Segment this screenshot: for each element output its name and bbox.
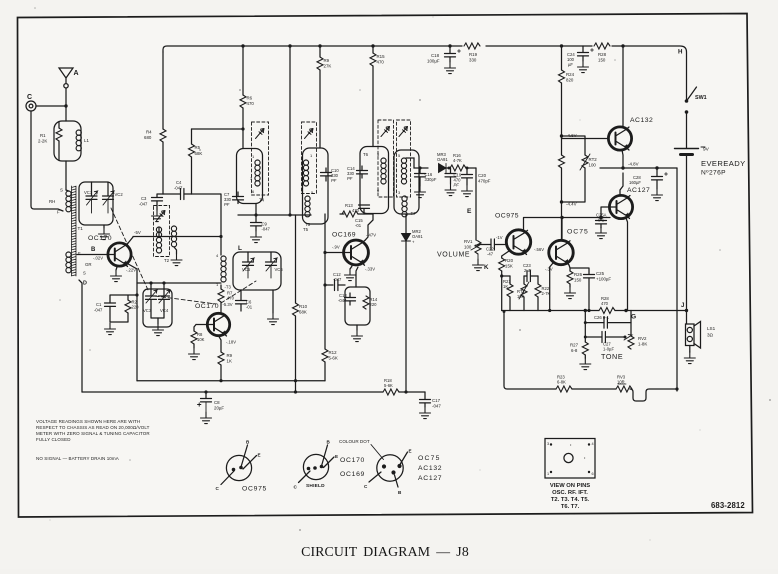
svg-text:160µF: 160µF bbox=[629, 180, 641, 185]
resistor R26 emitter bbox=[569, 265, 570, 287]
variable capacitor VC2 bbox=[107, 182, 109, 196]
svg-text:10R: 10R bbox=[617, 380, 625, 385]
capacitor C10 bbox=[325, 168, 327, 172]
wire screen feed bbox=[289, 46, 291, 215]
wire battery negative down to speaker node J bbox=[686, 155, 688, 311]
svg-text:G: G bbox=[631, 314, 636, 321]
resistor R6 bbox=[242, 46, 244, 149]
svg-text:100: 100 bbox=[464, 245, 472, 250]
svg-text:L: L bbox=[238, 245, 242, 252]
svg-text:C20: C20 bbox=[478, 173, 487, 178]
tank circuit L1/R1 outline bbox=[54, 121, 81, 161]
resistor R18 series in bus bbox=[383, 389, 399, 395]
svg-text:CIRCUIT DIAGRAM — J8: CIRCUIT DIAGRAM — J8 bbox=[301, 544, 469, 559]
svg-text:+100µF: +100µF bbox=[596, 277, 611, 282]
svg-text:-4.8V: -4.8V bbox=[628, 162, 639, 167]
svg-text:A: A bbox=[74, 70, 79, 77]
svg-text:R9: R9 bbox=[227, 353, 233, 358]
svg-text:K: K bbox=[484, 264, 489, 271]
capacitor C16 bbox=[419, 168, 421, 173]
wire T7 secondary to detector bbox=[406, 158, 428, 168]
wire R4 supply dropper bbox=[162, 52, 164, 194]
svg-text:10K: 10K bbox=[517, 294, 525, 299]
svg-text:F: F bbox=[78, 251, 81, 256]
svg-text:-.22V: -.22V bbox=[126, 268, 136, 273]
IF transformer T4 slug box bbox=[252, 122, 269, 195]
feedback loop C13/R14 bbox=[345, 287, 370, 325]
node E wire down to volume bbox=[475, 168, 477, 240]
capacitor C26 loop bbox=[585, 311, 631, 323]
svg-text:T6: T6 bbox=[363, 152, 369, 157]
svg-text:T5: T5 bbox=[305, 222, 311, 227]
svg-text:470pF: 470pF bbox=[478, 179, 491, 184]
svg-text:E: E bbox=[335, 454, 338, 459]
capacitor C28 bbox=[656, 168, 658, 176]
wire OC170 emitter branch to lower rail bbox=[127, 263, 138, 381]
svg-text:R27: R27 bbox=[570, 343, 579, 348]
transistor OC170 second bbox=[207, 313, 229, 335]
IF transformer T7 coil bbox=[394, 150, 419, 214]
inductor L1 bbox=[76, 130, 81, 151]
svg-text:OC169: OC169 bbox=[340, 471, 365, 478]
svg-text:C18: C18 bbox=[431, 53, 440, 58]
svg-text:R4: R4 bbox=[146, 130, 152, 135]
resistor R23 series bbox=[556, 386, 572, 392]
svg-text:AC132: AC132 bbox=[630, 117, 653, 124]
resistor R13 damping bbox=[340, 213, 373, 215]
svg-text:-47: -47 bbox=[487, 252, 494, 257]
tone control RV2 bbox=[628, 336, 634, 349]
svg-text:683-2812: 683-2812 bbox=[711, 501, 745, 510]
svg-text:-047: -047 bbox=[94, 308, 103, 313]
capacitor C7 bbox=[237, 192, 239, 196]
svg-text:OA91: OA91 bbox=[437, 157, 448, 162]
capacitor C25 bbox=[570, 268, 589, 274]
oscillator gang VC3/VC4 bbox=[143, 289, 172, 327]
svg-text:-.02V: -.02V bbox=[93, 256, 103, 261]
wire OC75 collector down bbox=[550, 263, 553, 311]
svg-text:T5: T5 bbox=[303, 227, 309, 232]
resistor R25 bbox=[559, 155, 565, 168]
svg-text:68K: 68K bbox=[299, 310, 307, 315]
svg-text:R24: R24 bbox=[566, 72, 575, 77]
svg-text:-01: -01 bbox=[355, 223, 362, 228]
resistor R15 470 bbox=[372, 46, 374, 147]
resistor R12 bbox=[324, 214, 326, 381]
oscillator transformer T3 bbox=[192, 194, 222, 313]
switch SW1 bbox=[687, 87, 697, 101]
svg-text:C8: C8 bbox=[214, 400, 220, 405]
svg-text:GR: GR bbox=[85, 262, 92, 267]
svg-text:220: 220 bbox=[370, 302, 378, 307]
svg-text:R20: R20 bbox=[505, 258, 514, 263]
svg-text:3Ω: 3Ω bbox=[707, 333, 714, 338]
wire OC169 collector to T7 bbox=[365, 214, 373, 240]
svg-text:E: E bbox=[258, 453, 261, 458]
svg-text:470: 470 bbox=[601, 301, 609, 306]
node -4.8V wire across bbox=[600, 167, 677, 169]
node -4.6V bbox=[560, 134, 563, 137]
main output bus G J bbox=[502, 310, 687, 312]
variable capacitor VC3 bbox=[146, 296, 157, 299]
wire AC127 base from C25A net bbox=[601, 207, 617, 218]
svg-text:SHIELD: SHIELD bbox=[306, 483, 325, 489]
wire AC132 base to -4.6V node bbox=[562, 138, 609, 140]
svg-text:C25: C25 bbox=[596, 271, 605, 276]
ground feedback loop bbox=[356, 325, 358, 330]
resistor R27 bbox=[584, 337, 586, 358]
svg-text:2µF: 2µF bbox=[524, 268, 532, 273]
svg-text:OC169: OC169 bbox=[332, 232, 356, 239]
bias ladder top wire bbox=[502, 275, 538, 277]
wire supply to OC75 base bbox=[561, 218, 563, 242]
svg-text:PF: PF bbox=[347, 176, 353, 181]
svg-text:S: S bbox=[83, 271, 86, 276]
svg-text:J: J bbox=[681, 302, 685, 309]
IF transformer T6 slug box bbox=[378, 120, 394, 197]
svg-text:T2. T3. T4. T5.: T2. T3. T4. T5. bbox=[551, 497, 590, 503]
wire AC127 emitter down to G bus bbox=[626, 218, 628, 311]
svg-text:68K: 68K bbox=[195, 151, 203, 156]
svg-text:-.56V: -.56V bbox=[534, 247, 544, 252]
wire AC127 collector from -4.8V node bbox=[620, 173, 623, 196]
wire R5 to R6 bbox=[192, 128, 244, 130]
svg-text:-4.6V: -4.6V bbox=[566, 133, 577, 138]
svg-text:-047: -047 bbox=[139, 202, 148, 207]
resistor R20 emitter of OC975 bbox=[502, 251, 509, 311]
capacitor C25A bbox=[600, 218, 602, 221]
svg-text:C1: C1 bbox=[96, 302, 102, 307]
svg-text:RV1: RV1 bbox=[464, 239, 473, 244]
svg-text:RH: RH bbox=[49, 199, 55, 204]
capacitor C23 bbox=[527, 271, 530, 282]
svg-text:PF: PF bbox=[331, 178, 337, 183]
svg-text:R10: R10 bbox=[299, 304, 308, 309]
svg-text:SW1: SW1 bbox=[695, 95, 707, 101]
capacitor C9 bbox=[255, 204, 257, 223]
svg-text:-047: -047 bbox=[338, 298, 347, 303]
ground under VC6 bbox=[272, 290, 274, 313]
resistor R28a 470 series in bus bbox=[599, 308, 615, 314]
svg-text:OC975: OC975 bbox=[242, 486, 267, 493]
svg-text:680: 680 bbox=[144, 135, 152, 140]
svg-text:VC2: VC2 bbox=[115, 192, 124, 197]
resistor R9 emitter bbox=[219, 336, 222, 381]
svg-text:1-8K: 1-8K bbox=[638, 342, 647, 347]
svg-text:4-7K: 4-7K bbox=[453, 158, 462, 163]
capacitor C22 bbox=[478, 244, 491, 246]
svg-text:B: B bbox=[91, 247, 96, 253]
svg-text:470: 470 bbox=[377, 60, 385, 65]
wire supply branch R24/R25 bbox=[561, 46, 563, 240]
svg-text:C17: C17 bbox=[432, 398, 441, 403]
wire AC132 collector to rail bbox=[622, 46, 624, 126]
capacitor C19 bbox=[450, 168, 452, 173]
transistor OC975 bbox=[506, 230, 530, 254]
svg-text:-047: -047 bbox=[432, 404, 441, 409]
svg-text:AC127: AC127 bbox=[627, 187, 650, 194]
capacitor C4 bbox=[163, 193, 192, 195]
resistor R28 series in rail bbox=[594, 43, 610, 49]
antenna A bbox=[59, 68, 73, 83]
node rail junction dots bbox=[241, 44, 624, 47]
wire T4 secondary link bbox=[238, 214, 311, 216]
svg-text:R19: R19 bbox=[469, 52, 478, 57]
IF transformer T6 coil bbox=[360, 147, 389, 214]
resistor R5 bbox=[191, 129, 193, 194]
svg-text:-01: -01 bbox=[246, 305, 253, 310]
svg-text:D: D bbox=[83, 281, 87, 287]
pin view colour dot group bbox=[377, 455, 403, 481]
variable capacitor VC4 bbox=[159, 296, 170, 299]
preset RV3 series bbox=[616, 386, 632, 392]
svg-text:RV2: RV2 bbox=[638, 336, 647, 341]
svg-text:4: 4 bbox=[592, 442, 594, 446]
winding RH bbox=[66, 191, 71, 212]
svg-text:OC170: OC170 bbox=[340, 457, 365, 464]
svg-text:AC132: AC132 bbox=[418, 465, 442, 472]
svg-text:1-0µF: 1-0µF bbox=[603, 347, 614, 352]
wire OC975 collector top bbox=[524, 218, 611, 232]
svg-text:820: 820 bbox=[566, 78, 574, 83]
oscillator coil T2 bbox=[154, 206, 170, 257]
wire C to antenna node bbox=[36, 105, 66, 107]
svg-text:VC6: VC6 bbox=[275, 267, 284, 272]
resistor R21 bbox=[509, 276, 511, 311]
resistor R14 bbox=[363, 296, 369, 309]
ganged tuning dashed line bbox=[111, 208, 256, 304]
svg-text:-.3V: -.3V bbox=[545, 267, 553, 272]
svg-text:EVEREADY: EVEREADY bbox=[701, 159, 746, 168]
svg-text:Nº276P: Nº276P bbox=[701, 170, 726, 177]
pin view OC170 OC169 shield bbox=[303, 454, 328, 479]
wire upper return bus bbox=[137, 380, 325, 382]
capacitor C14 bbox=[361, 166, 363, 170]
svg-text:OA91: OA91 bbox=[412, 234, 423, 239]
svg-text:330: 330 bbox=[469, 58, 477, 63]
svg-text:R15: R15 bbox=[377, 54, 386, 59]
winding GR on rod bbox=[66, 252, 71, 273]
IF transformer T5 slug box bbox=[302, 122, 317, 194]
oscillator tuned circuit L VC5 VC6 bbox=[233, 252, 281, 290]
resistor R10 bbox=[295, 215, 297, 392]
svg-text:5-6K: 5-6K bbox=[329, 356, 338, 361]
svg-text:S: S bbox=[60, 188, 63, 193]
resistor R16 bbox=[450, 165, 466, 171]
svg-text:F: F bbox=[57, 210, 60, 215]
svg-text:-1V: -1V bbox=[496, 235, 503, 240]
diode MR2 AGC bbox=[405, 214, 407, 233]
wire -4.8V feed down right side bbox=[676, 168, 678, 391]
ground under gang box bbox=[103, 225, 105, 228]
transformer T1 ferrite rod bbox=[72, 186, 77, 276]
svg-text:6-8K: 6-8K bbox=[557, 380, 566, 385]
svg-text:L1: L1 bbox=[84, 138, 89, 143]
transistor Q AC132 bbox=[608, 127, 631, 150]
resistor R22 bbox=[537, 276, 539, 311]
wire D down to lower bus bbox=[79, 280, 82, 392]
variable capacitor VC6 bbox=[270, 252, 272, 262]
wire AC132 emitter to -4.8V node bbox=[622, 150, 623, 168]
svg-text:µF: µF bbox=[568, 62, 573, 67]
transistor OC75 bbox=[549, 240, 573, 264]
resistor R8 base bias bbox=[194, 325, 214, 349]
svg-text:470: 470 bbox=[227, 296, 235, 301]
svg-text:R9: R9 bbox=[324, 58, 330, 63]
wire C down to coil F bbox=[31, 111, 63, 211]
svg-text:OC75: OC75 bbox=[567, 229, 589, 236]
svg-text:15K: 15K bbox=[505, 264, 513, 269]
svg-text:T1: T1 bbox=[78, 226, 84, 231]
IF transformer T7 slug box bbox=[397, 120, 411, 197]
ground OC170 emitter bbox=[116, 267, 117, 270]
svg-text:OC975: OC975 bbox=[495, 213, 519, 220]
svg-text:METER WITH ZERO SIGNAL &: METER WITH ZERO SIGNAL & TUNING CAPACITO… bbox=[36, 431, 150, 436]
svg-text:VOLUME: VOLUME bbox=[437, 252, 470, 259]
svg-text:OC170: OC170 bbox=[88, 235, 112, 242]
resistor R9a 27K bbox=[319, 46, 321, 148]
capacitor C3 bbox=[157, 194, 163, 197]
svg-text:VC4: VC4 bbox=[160, 308, 169, 313]
connector C bbox=[26, 101, 36, 111]
svg-text:E: E bbox=[467, 208, 472, 215]
svg-text:-4.4V: -4.4V bbox=[566, 202, 577, 207]
wire switch to battery bbox=[686, 112, 688, 148]
labels right power area bbox=[305, 49, 746, 228]
variable capacitor VC1 bbox=[91, 182, 93, 196]
svg-text:OC170: OC170 bbox=[195, 303, 219, 310]
svg-text:R6: R6 bbox=[247, 96, 253, 101]
wire top supply rail bbox=[163, 46, 687, 99]
svg-text:E: E bbox=[409, 449, 412, 454]
svg-text:220: 220 bbox=[132, 305, 140, 310]
svg-text:H: H bbox=[678, 49, 683, 56]
bottom feedback loop wire bbox=[504, 312, 677, 402]
svg-text:6: 6 bbox=[592, 472, 594, 476]
svg-text:20µF: 20µF bbox=[214, 406, 224, 411]
svg-text:-.18V: -.18V bbox=[226, 340, 236, 345]
capacitor C27 tone loop bbox=[585, 323, 631, 337]
capacitor C8 electrolytic bbox=[205, 392, 207, 398]
svg-text:-.9V: -.9V bbox=[332, 245, 340, 250]
svg-text:RESPECT TO CHASSIS AS READ: RESPECT TO CHASSIS AS READ ON 20,000Ω/VO… bbox=[36, 425, 150, 430]
svg-text:OC75: OC75 bbox=[418, 455, 441, 462]
svg-text:VIEW ON PINS: VIEW ON PINS bbox=[550, 483, 590, 489]
svg-text:-047: -047 bbox=[333, 277, 342, 282]
svg-text:AC127: AC127 bbox=[418, 475, 442, 482]
svg-text:9V: 9V bbox=[703, 147, 710, 153]
svg-text:VC1: VC1 bbox=[84, 190, 93, 195]
svg-text:R28: R28 bbox=[598, 52, 607, 57]
capacitor C24 bbox=[582, 46, 584, 52]
wire OC169 base to R12 net bbox=[325, 252, 351, 254]
svg-text:0-1: 0-1 bbox=[598, 218, 605, 223]
svg-text:1K: 1K bbox=[503, 284, 508, 289]
svg-text:R12: R12 bbox=[329, 350, 338, 355]
svg-text:5-6K: 5-6K bbox=[384, 383, 393, 388]
svg-text:150: 150 bbox=[574, 278, 582, 283]
svg-text:1K: 1K bbox=[227, 359, 232, 364]
capacitor C6 bbox=[240, 290, 242, 300]
svg-text:C: C bbox=[27, 94, 32, 101]
capacitor C13 bbox=[349, 293, 351, 297]
volume control RV1 bbox=[475, 241, 481, 254]
speaker LS1 bbox=[686, 311, 688, 325]
transistor OC170 first bbox=[108, 243, 131, 266]
svg-text:-T3: -T3 bbox=[225, 285, 232, 290]
IF transformer T4 coil bbox=[237, 149, 263, 204]
svg-text:470: 470 bbox=[247, 101, 255, 106]
svg-text:PF: PF bbox=[224, 202, 230, 207]
svg-text:RT2: RT2 bbox=[589, 157, 598, 162]
svg-text:TONE: TONE bbox=[601, 352, 623, 361]
svg-text:-047: -047 bbox=[174, 186, 183, 191]
transformer pin view box bbox=[545, 439, 595, 479]
svg-text:VOLTAGE READINGS SHOWN HERE: VOLTAGE READINGS SHOWN HERE ARE WITH bbox=[36, 419, 140, 424]
wire OC170 base bbox=[77, 254, 114, 256]
svg-text:PF: PF bbox=[454, 183, 460, 188]
svg-text:R26: R26 bbox=[574, 272, 583, 277]
ground OC169 emitter bbox=[350, 266, 352, 269]
svg-text:-.33V: -.33V bbox=[365, 267, 375, 272]
capacitor C20 bbox=[466, 168, 468, 174]
thermistor RT1 bbox=[523, 276, 525, 311]
capacitor C1 / resistor R2 bias loop bbox=[110, 295, 137, 322]
capacitor C18 bbox=[449, 46, 451, 53]
pin view OC975 bbox=[226, 455, 251, 480]
svg-text:1: 1 bbox=[547, 472, 549, 476]
svg-text:2-2K: 2-2K bbox=[38, 139, 47, 144]
svg-text:-047: -047 bbox=[262, 227, 271, 232]
resistor R1 bbox=[58, 122, 60, 161]
svg-text:C3: C3 bbox=[141, 196, 147, 201]
battery BY1 Eveready 276P bbox=[675, 148, 699, 150]
svg-text:100: 100 bbox=[589, 163, 597, 168]
wire lower chassis bus bbox=[82, 391, 425, 393]
svg-text:VC5: VC5 bbox=[242, 267, 251, 272]
svg-text:27K: 27K bbox=[324, 64, 332, 69]
transistor Q AC127 bbox=[609, 195, 632, 218]
tuning gang box VC1/VC2 bbox=[79, 182, 113, 225]
note voltage readings text bbox=[36, 419, 150, 461]
svg-text:COLOUR DOT: COLOUR DOT bbox=[339, 439, 370, 444]
svg-text:R1: R1 bbox=[40, 133, 46, 138]
transistor OC169 bbox=[344, 240, 369, 265]
svg-text:150: 150 bbox=[598, 58, 606, 63]
node -4.4V bbox=[560, 200, 563, 203]
svg-text:T2: T2 bbox=[164, 258, 170, 263]
IF transformer T5 coil bbox=[303, 148, 329, 224]
capacitor C17 bbox=[424, 392, 426, 399]
variable capacitor VC5 bbox=[247, 252, 249, 262]
svg-text:3: 3 bbox=[547, 442, 549, 446]
capacitor C12 bbox=[325, 284, 333, 286]
svg-text:330pF: 330pF bbox=[425, 177, 437, 182]
svg-text:T4: T4 bbox=[259, 198, 265, 203]
svg-text:100µF: 100µF bbox=[427, 59, 440, 64]
svg-text:T7: T7 bbox=[411, 211, 417, 216]
ground under VC4 bbox=[157, 318, 159, 324]
capacitor C15 bbox=[363, 209, 365, 214]
svg-text:NO SIGNAL — BATTERY DRAIN: NO SIGNAL — BATTERY DRAIN 10mA bbox=[36, 456, 119, 461]
svg-text:LS1: LS1 bbox=[707, 326, 716, 331]
resistor R4 bbox=[160, 129, 166, 142]
svg-text:6-8: 6-8 bbox=[571, 348, 578, 353]
diode MR3 detector bbox=[439, 164, 447, 173]
resistor R24 bbox=[559, 70, 565, 83]
svg-text:C26 0-1: C26 0-1 bbox=[594, 315, 610, 320]
svg-text:VC3: VC3 bbox=[143, 308, 152, 313]
